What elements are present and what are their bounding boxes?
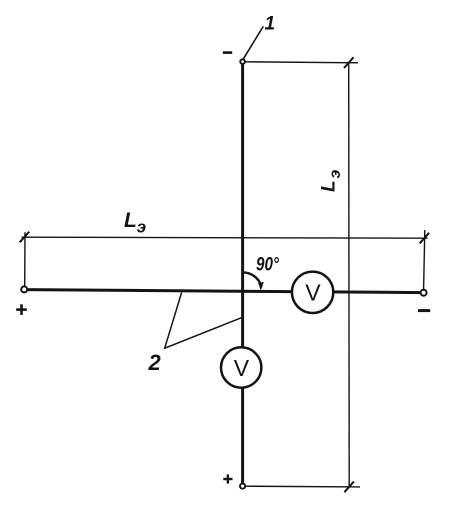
extension line (right, from right terminal) xyxy=(424,230,425,289)
leader line to label 1 xyxy=(243,26,263,59)
polarity − (top) xyxy=(223,51,232,54)
terminal (right, open circle) xyxy=(421,290,427,296)
svg-text:V: V xyxy=(234,355,250,381)
svg-text:э: э xyxy=(137,217,146,236)
dimension tick (vertical dim, bottom end) xyxy=(344,482,354,493)
voltmeter V2 (on vertical rod) xyxy=(221,347,261,387)
dimension line Lэ (horizontal) xyxy=(22,237,428,238)
dimension tick (horizontal dim, right end) xyxy=(420,233,430,244)
polarity + (left) xyxy=(16,304,27,315)
extension line (left, from left terminal) xyxy=(24,232,26,286)
svg-text:L: L xyxy=(124,209,137,232)
svg-text:1: 1 xyxy=(265,14,276,35)
terminal (left, open circle) xyxy=(21,286,27,292)
svg-text:V: V xyxy=(305,280,321,306)
voltmeter V1 (on horizontal rod) xyxy=(292,272,333,313)
dimension tick (horizontal dim, left end) xyxy=(20,232,30,243)
extension line (top, from top terminal) xyxy=(246,62,359,63)
wire: horizontal electrode rod xyxy=(24,290,423,293)
angle arc 90 degrees with arrowhead xyxy=(243,272,264,290)
extension line (bottom, from bottom terminal) xyxy=(246,485,361,488)
svg-text:2: 2 xyxy=(148,350,162,375)
terminal (bottom, open circle) xyxy=(240,484,245,489)
label Lэ (horizontal dimension) xyxy=(124,209,146,236)
polarity − (right) xyxy=(418,309,430,312)
svg-text:90°: 90° xyxy=(256,255,279,276)
terminal (top, open circle) xyxy=(240,59,245,64)
dimension tick (vertical dim, top end) xyxy=(344,57,354,68)
polarity + (bottom) xyxy=(223,474,232,483)
dimension line Lэ (vertical) xyxy=(348,62,351,486)
svg-text:э: э xyxy=(327,170,344,179)
wire: vertical electrode rod xyxy=(241,62,244,487)
leader lines to label 2 (pointing to both rods) xyxy=(165,293,242,349)
label Lэ (vertical dimension, rotated) xyxy=(319,170,345,193)
svg-text:L: L xyxy=(319,180,340,192)
